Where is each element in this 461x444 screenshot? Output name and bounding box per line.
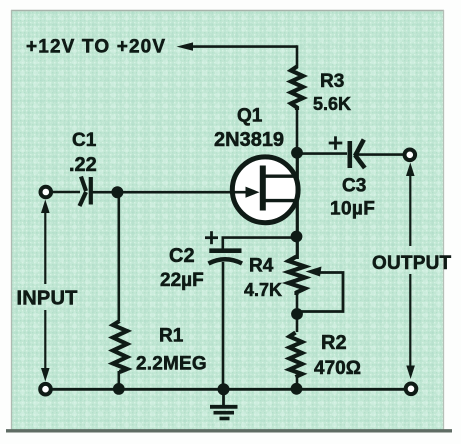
resistor R1 <box>113 321 127 372</box>
terminal input top <box>41 187 52 198</box>
transistor Q1 body circle <box>232 157 298 223</box>
transistor Q1 channel bar <box>260 166 266 211</box>
wire gate node to transistor gate <box>117 191 247 194</box>
panel border bottom <box>6 429 452 432</box>
svg-text:+12V TO +20V: +12V TO +20V <box>26 37 166 58</box>
wire C3 to output terminal <box>357 153 404 156</box>
input dimension line lower <box>44 310 46 371</box>
wire source node to C2 <box>223 238 295 250</box>
transistor Q1 drain lead <box>264 174 299 177</box>
capacitor C2 plus sign <box>205 231 218 244</box>
node R2 bottom junction <box>291 383 303 395</box>
node R1 bottom junction <box>113 383 125 395</box>
panel border top <box>11 10 444 12</box>
wire bottom rail <box>48 388 408 391</box>
node ground junction <box>218 383 230 395</box>
input dimension arrow down <box>41 368 50 382</box>
output dimension line lower <box>409 274 411 368</box>
capacitor C3 plus sign <box>329 136 343 149</box>
svg-text:R2: R2 <box>321 332 347 354</box>
svg-text:22µF: 22µF <box>160 270 204 291</box>
svg-text:C2: C2 <box>169 245 195 267</box>
wire input terminal to C1 <box>52 191 80 194</box>
supply arrowhead <box>177 42 194 50</box>
svg-text:C1: C1 <box>72 130 97 151</box>
wire gate node down to R1 <box>118 192 121 321</box>
resistor R2 <box>290 333 303 378</box>
wire R2 to bottom rail <box>296 376 299 389</box>
wire drain to C3 <box>297 152 347 155</box>
wire C1 to gate node <box>92 191 117 194</box>
capacitor C3 <box>350 140 365 169</box>
wire R4 to node <box>296 295 299 332</box>
svg-text:.22: .22 <box>69 154 97 176</box>
wire C2 to ground rail <box>222 262 225 389</box>
svg-text:470Ω: 470Ω <box>314 358 361 379</box>
terminal output top <box>405 150 416 161</box>
node source junction <box>291 231 303 243</box>
ground <box>210 389 238 419</box>
wire top rail down to R3 <box>296 45 299 68</box>
panel border left <box>11 10 13 430</box>
svg-text:R3: R3 <box>320 71 344 92</box>
wire vertical rail past transistor <box>296 152 299 259</box>
transistor Q1 gate arrowhead <box>246 187 260 198</box>
svg-text:INPUT: INPUT <box>17 288 78 310</box>
output dimension line upper <box>409 173 411 246</box>
transistor Q1 source lead <box>264 199 299 202</box>
output dimension arrow up <box>406 163 415 177</box>
capacitor C2 <box>209 251 243 264</box>
potentiometer R4 wiper loop wire <box>299 273 343 312</box>
terminal output bottom <box>406 384 417 395</box>
potentiometer R4 wiper arrowhead <box>306 267 322 277</box>
svg-text:R1: R1 <box>159 326 184 347</box>
node gate junction <box>111 186 123 198</box>
svg-text:10µF: 10µF <box>330 199 375 220</box>
capacitor C1 <box>80 177 91 207</box>
wire R3 to drain node <box>296 110 299 154</box>
svg-text:C3: C3 <box>342 176 366 197</box>
svg-text:5.6K: 5.6K <box>313 94 351 114</box>
resistor R3 <box>291 67 303 111</box>
wire top rail horizontal <box>191 45 297 48</box>
svg-text:2N3819: 2N3819 <box>214 129 284 151</box>
input dimension line upper <box>44 210 46 284</box>
input dimension arrow up <box>41 200 50 214</box>
resistor R4 <box>289 257 306 296</box>
svg-text:R4: R4 <box>249 256 274 277</box>
svg-text:Q1: Q1 <box>237 106 263 127</box>
node drain junction <box>291 147 303 159</box>
terminal input bottom <box>40 384 51 395</box>
node R4 bottom junction <box>291 308 303 320</box>
svg-text:2.2MEG: 2.2MEG <box>136 354 207 375</box>
svg-text:OUTPUT: OUTPUT <box>372 253 452 274</box>
svg-text:4.7K: 4.7K <box>244 280 282 300</box>
wire R1 to bottom rail <box>118 371 121 389</box>
output dimension arrow down <box>406 366 415 380</box>
panel border right <box>443 10 445 430</box>
